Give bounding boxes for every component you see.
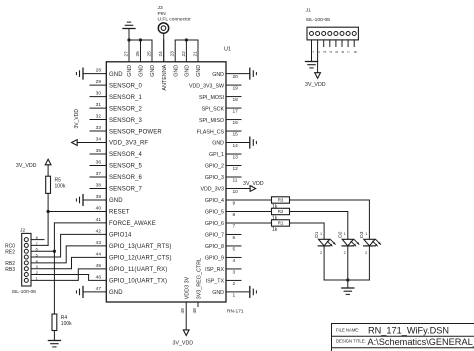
J1 pin 7 stub (347, 40, 349, 47)
wire U1 pin 47 GND to ground (83, 291, 106, 293)
svg-text:SENSOR_4: SENSOR_4 (109, 152, 143, 158)
svg-text:DESIGN TITLE:: DESIGN TITLE: (336, 338, 366, 343)
svg-text:SPI_MISO: SPI_MISO (199, 118, 224, 124)
J1 pin 2 circle (316, 32, 320, 36)
wire junction down to J2 pin 7 (47, 212, 49, 246)
U1 pin 48 stub (bottom) (197, 302, 199, 307)
svg-text:GPIO_4: GPIO_4 (205, 198, 224, 204)
wire 3V_VDD arrow to R5 (47, 165, 49, 176)
svg-text:GPIO_3: GPIO_3 (205, 175, 224, 181)
J2 pin 7 circle (24, 243, 28, 247)
power symbol 3V_VDD (down arrow at J1 pin 2) (315, 73, 321, 79)
U1 pin 35 SENSOR_4 stub (90, 153, 106, 155)
wire U1 to resistor R2 (226, 210, 272, 212)
J1 pin 1 circle (310, 32, 314, 36)
svg-text:1: 1 (365, 232, 367, 236)
connector J1 SIL-100-08 body (307, 27, 358, 40)
wire J2 pin 4 to U1 pin 43 (31, 246, 106, 263)
svg-text:1k: 1k (272, 227, 278, 233)
connector J3 U.FL (outer ring) (158, 23, 168, 33)
svg-text:1: 1 (233, 293, 236, 299)
wire LED common cathode bus (324, 279, 369, 281)
wire R3 to LED D3 (290, 200, 370, 239)
U1 pin 6 GPIO_7 stub (226, 233, 241, 235)
svg-text:44: 44 (96, 251, 102, 257)
wire U1 pin 34 VDD_3V3_RF to power arrow (77, 142, 106, 144)
svg-text:5: 5 (335, 51, 339, 53)
wire U1 pin 28 GND to ground (83, 73, 106, 75)
wire J2 pin 3 to U1 pin 44 (31, 257, 106, 268)
svg-text:7: 7 (347, 51, 351, 53)
J1 pin 3 circle (322, 32, 326, 36)
svg-text:3V_VDD: 3V_VDD (16, 163, 37, 169)
svg-text:SPI_MOSI: SPI_MOSI (199, 95, 224, 101)
wire LED D3 cathode down (368, 246, 370, 280)
ground (top-left, pointing up) (128, 29, 130, 41)
U1 pin 22 GND stub (top) (185, 40, 187, 62)
power symbol 3V_VDD (up arrow above R5) (45, 159, 51, 165)
svg-text:2: 2 (365, 251, 367, 255)
J1 pin 6 stub (341, 40, 343, 47)
resistor R1 (272, 220, 290, 226)
svg-text:30: 30 (96, 91, 102, 97)
U1 pin 26 GND stub (top) (140, 40, 142, 62)
svg-text:6: 6 (233, 235, 236, 241)
U1 pin 3 ISP_RX stub (226, 268, 241, 270)
svg-text:GPIO_5: GPIO_5 (205, 210, 224, 216)
U1 pin 23 GND stub (top) (174, 40, 176, 62)
J1 pin 5 stub (335, 40, 337, 47)
svg-text:RE2: RE2 (5, 250, 15, 256)
LED D1 emission arrow 1 (327, 241, 332, 246)
svg-text:3V_VDD: 3V_VDD (243, 181, 264, 187)
svg-text:49: 49 (180, 308, 186, 314)
svg-text:13: 13 (233, 155, 239, 161)
svg-text:20: 20 (233, 74, 239, 80)
svg-text:36: 36 (96, 160, 102, 166)
junction at pin 26 top (139, 38, 142, 41)
LED D2 cathode bar (342, 245, 354, 247)
svg-text:GND: GND (185, 65, 191, 77)
svg-text:11: 11 (233, 178, 238, 184)
svg-text:27: 27 (123, 51, 129, 57)
svg-text:SENSOR_6: SENSOR_6 (109, 175, 143, 181)
svg-text:3V_VDD: 3V_VDD (173, 341, 194, 347)
svg-text:48: 48 (192, 308, 198, 314)
svg-text:41: 41 (96, 217, 102, 223)
svg-text:GPIO_11(UART_RX): GPIO_11(UART_RX) (109, 267, 167, 273)
wire J2 pin 2 to U1 pin 46 (31, 275, 106, 281)
title block divider 1 (332, 335, 474, 337)
wire top GND bus left (pins 27-25) (129, 39, 152, 41)
svg-text:GND: GND (127, 65, 133, 77)
U1 pin 2 ISP_TX stub (226, 279, 241, 281)
ground (right of pin 14) (249, 137, 251, 148)
svg-text:7: 7 (233, 224, 236, 230)
svg-text:38: 38 (96, 183, 102, 189)
svg-text:GND: GND (212, 290, 224, 296)
U1 pin 32 SENSOR_3 stub (90, 119, 106, 121)
svg-text:VDD_3V3_RF: VDD_3V3_RF (109, 141, 148, 147)
svg-text:100k: 100k (61, 321, 72, 327)
svg-text:GND: GND (212, 141, 224, 147)
U1 pin 17 SPI_SCK stub (226, 107, 241, 109)
svg-text:GPIO_2: GPIO_2 (205, 164, 224, 170)
J1 pin 6 circle (340, 32, 344, 36)
U1 pin 29 SENSOR_0 stub (90, 84, 106, 86)
svg-text:FILE NAME:: FILE NAME: (336, 327, 359, 332)
svg-text:J3: J3 (158, 5, 163, 11)
LED D2 (diode triangle) (342, 239, 353, 246)
ground (right of pin 1) (249, 287, 251, 298)
svg-text:SPI_SCK: SPI_SCK (202, 106, 225, 112)
J1 pin 8 circle (352, 32, 356, 36)
ground (below LEDs) (342, 287, 354, 289)
J2 pin 6 circle (24, 249, 28, 253)
svg-text:R3: R3 (278, 198, 284, 203)
U1 pin 5 GPIO_8 stub (226, 245, 241, 247)
resistor R5 (46, 176, 51, 193)
J1 pin 3 stub (323, 40, 325, 47)
svg-text:23: 23 (170, 51, 176, 57)
svg-text:3: 3 (233, 270, 236, 276)
svg-text:J1: J1 (306, 8, 311, 14)
svg-text:32: 32 (96, 114, 102, 120)
svg-text:PIN: PIN (158, 11, 167, 17)
U1 pin 16 SPI_MISO stub (226, 119, 241, 121)
svg-text:17: 17 (233, 109, 239, 115)
wire LED bus to ground (347, 280, 349, 288)
svg-text:12: 12 (233, 166, 239, 172)
resistor R2 (272, 208, 290, 214)
wire top GND bus right (pins 23-21) (175, 39, 198, 41)
svg-text:VDD_3V3_SW: VDD_3V3_SW (189, 83, 224, 89)
power symbol 3V_VDD (down arrow at pin 49) (183, 330, 189, 336)
svg-text:100k: 100k (55, 183, 66, 189)
power symbol 3V_VDD (right arrow at pin 10) (250, 186, 256, 192)
svg-text:34: 34 (96, 137, 102, 143)
wire J2 pin 1 to U1 pin 45 (31, 269, 106, 280)
wire LED D1 cathode down (323, 246, 325, 280)
svg-text:RN-171: RN-171 (227, 309, 244, 315)
junction LED bus / ground (346, 278, 349, 281)
wire U1 to resistor R3 (226, 199, 272, 201)
wire U1 pin 1 GND to ground (226, 291, 250, 293)
svg-text:43: 43 (96, 240, 102, 246)
svg-text:18: 18 (233, 97, 239, 103)
U1 pin 37 SENSOR_6 stub (90, 176, 106, 178)
wire J2 pin 6 to R4 net junction (31, 250, 54, 252)
wire R1 to LED D1 (290, 223, 325, 239)
svg-text:GND: GND (173, 65, 179, 77)
svg-text:SENSOR_0: SENSOR_0 (109, 83, 143, 89)
svg-text:GND: GND (212, 72, 224, 78)
svg-text:45: 45 (96, 263, 102, 269)
U1 pin 21 GND stub (top) (197, 40, 199, 62)
U1 pin 25 GND stub (top) (151, 40, 153, 62)
svg-text:47: 47 (96, 286, 102, 292)
wire RESET net to U1 pin 40 (48, 211, 106, 213)
LED D2 emission arrow 1 (351, 241, 356, 246)
ground (below R4) (48, 340, 60, 342)
svg-text:1: 1 (320, 232, 322, 236)
svg-text:3V_VDD: 3V_VDD (305, 82, 326, 88)
svg-text:SENSOR_7: SENSOR_7 (109, 187, 143, 193)
svg-text:J2: J2 (20, 228, 25, 234)
svg-text:14: 14 (233, 143, 239, 149)
svg-text:RN_171_WiFy.DSN: RN_171_WiFy.DSN (368, 325, 449, 335)
svg-text:GPIO_6: GPIO_6 (205, 221, 224, 227)
svg-text:15: 15 (233, 132, 239, 138)
svg-text:FLASH_CS: FLASH_CS (197, 129, 225, 135)
wire J2 pin 8 stub (31, 239, 44, 241)
J1 pin 7 circle (346, 32, 350, 36)
wire R4 net vertical (53, 223, 55, 314)
svg-text:SENSOR_2: SENSOR_2 (109, 106, 143, 112)
svg-text:U.FL connector: U.FL connector (158, 17, 192, 23)
svg-text:ANTENNA: ANTENNA (162, 64, 168, 90)
LED D3 emission arrow 2 (376, 240, 381, 245)
svg-text:GPI_1: GPI_1 (209, 152, 224, 158)
J2 pin 4 circle (24, 261, 28, 265)
junction at pin 22 top (185, 38, 188, 41)
J1 pin 4 stub (329, 40, 331, 47)
svg-text:RESET: RESET (109, 210, 130, 216)
LED D2 emission arrow 2 (354, 240, 359, 245)
J2 pin 5 circle (24, 255, 28, 259)
svg-text:A:\Schematics\GENERAL_: A:\Schematics\GENERAL_ (368, 337, 474, 347)
svg-text:R1: R1 (278, 221, 284, 226)
svg-text:SENSOR_1: SENSOR_1 (109, 95, 143, 101)
svg-text:U1: U1 (224, 47, 231, 53)
wire R4 to ground (53, 331, 55, 341)
svg-text:GND: GND (109, 198, 123, 204)
svg-text:GPIO_7: GPIO_7 (205, 233, 224, 239)
wire R2 to LED D2 (290, 211, 348, 239)
resistor R3 (272, 197, 290, 203)
U1 pin 12 GPIO_2 stub (226, 165, 241, 167)
ground (left of pin 47) (82, 287, 84, 298)
wire U1 pin 39 GND to ground (83, 199, 106, 201)
svg-text:4: 4 (233, 258, 236, 264)
svg-text:SENSOR_5: SENSOR_5 (109, 164, 143, 170)
svg-text:3V3_REG_CTRL: 3V3_REG_CTRL (196, 258, 202, 299)
svg-text:GPIO_8: GPIO_8 (205, 244, 224, 250)
LED D3 cathode bar (364, 245, 376, 247)
svg-text:GND: GND (196, 65, 202, 77)
svg-text:42: 42 (96, 228, 102, 234)
svg-text:33: 33 (96, 125, 102, 131)
svg-text:FORCE_AWAKE: FORCE_AWAKE (109, 221, 156, 227)
U1 pin 36 SENSOR_5 stub (90, 165, 106, 167)
wire J1 pin 2 to 3V_VDD (317, 40, 319, 73)
LED D3 (diode triangle) (364, 239, 375, 246)
svg-text:39: 39 (96, 194, 102, 200)
svg-text:37: 37 (96, 171, 102, 177)
U1 pin 15 FLASH_CS stub (226, 130, 241, 132)
svg-text:SIL-100-08: SIL-100-08 (306, 17, 330, 23)
svg-text:R2: R2 (278, 209, 284, 214)
svg-text:22: 22 (181, 51, 187, 57)
ground (right of pin 20) (249, 68, 251, 79)
J2 pin 1 circle (24, 278, 28, 282)
J1 pin 4 circle (328, 32, 332, 36)
svg-text:1: 1 (344, 232, 346, 236)
J2 pin 2 circle (24, 273, 28, 277)
power symbol 3V_VDD (left arrow at pin 34) (72, 140, 78, 146)
svg-text:VDD_3V3: VDD_3V3 (200, 187, 224, 193)
wire J2 pin 7 to RESET junction (31, 244, 48, 246)
wire U1 to resistor R1 (226, 222, 272, 224)
svg-text:GPIO_13(UART_RTS): GPIO_13(UART_RTS) (109, 244, 172, 250)
wire LED D2 cathode down (347, 246, 349, 280)
svg-text:35: 35 (96, 148, 102, 154)
svg-text:29: 29 (96, 79, 102, 85)
svg-text:3: 3 (323, 51, 327, 53)
svg-text:5: 5 (233, 247, 236, 253)
svg-text:GPIO14: GPIO14 (109, 233, 132, 239)
svg-text:46: 46 (96, 274, 102, 280)
wire U1 pin 10 VDD_3V3 to power arrow (226, 188, 250, 190)
svg-text:SENSOR_POWER: SENSOR_POWER (109, 129, 162, 135)
J2 pin 3 circle (24, 267, 28, 271)
svg-text:GPIO_9: GPIO_9 (205, 256, 224, 262)
U1 pin 38 SENSOR_7 stub (90, 188, 106, 190)
U1 pin 11 GPIO_3 stub (226, 176, 241, 178)
U1 pin 18 SPI_MOSI stub (226, 96, 241, 98)
ground (left of pin 28) (82, 68, 84, 79)
svg-text:21: 21 (192, 51, 198, 57)
U1 pin 4 GPIO_9 stub (226, 256, 241, 258)
U1 pin 31 SENSOR_2 stub (90, 107, 106, 109)
svg-text:9: 9 (233, 201, 236, 207)
svg-text:ISP_RX: ISP_RX (205, 267, 224, 273)
U1 pin 33 SENSOR_POWER stub (90, 130, 106, 132)
junction at pin 27 top (127, 38, 130, 41)
svg-text:SIL-100-08: SIL-100-08 (12, 289, 36, 295)
LED D1 cathode bar (318, 245, 330, 247)
wire U1 pin 14 GND to ground (226, 142, 250, 144)
connector J2 SIL-100-08 body (22, 233, 31, 286)
U1 pin 30 SENSOR_1 stub (90, 96, 106, 98)
svg-text:31: 31 (96, 102, 102, 108)
svg-text:19: 19 (233, 86, 239, 92)
svg-text:40: 40 (96, 205, 102, 211)
ground (left of pin 39) (82, 195, 84, 206)
title block border (332, 324, 474, 351)
svg-text:GPIO_12(UART_CTS): GPIO_12(UART_CTS) (109, 256, 172, 262)
U1 pin 13 GPI_1 stub (226, 153, 241, 155)
svg-text:SENSOR_3: SENSOR_3 (109, 118, 143, 124)
wire U1 pin 41 FORCE_AWAKE to R4 net (54, 222, 106, 224)
connector J3 U.FL (inner ring) (161, 26, 166, 31)
svg-text:4: 4 (329, 51, 333, 53)
svg-text:2: 2 (320, 251, 322, 255)
svg-text:GPIO_10(UART_TX): GPIO_10(UART_TX) (109, 279, 167, 285)
svg-text:GND: GND (150, 65, 156, 77)
svg-text:6: 6 (341, 51, 345, 53)
junction R4 net / J2 pin 6 (53, 250, 56, 253)
wire U1 pin 20 GND to ground (226, 73, 250, 75)
svg-text:8: 8 (233, 212, 236, 218)
svg-text:RB3: RB3 (5, 267, 15, 273)
svg-text:2: 2 (233, 281, 236, 287)
resistor R4 (52, 314, 57, 331)
LED D1 (diode triangle) (319, 239, 330, 246)
J2 pin 8 circle (24, 238, 28, 242)
wire J1 pin 1 to ground (311, 40, 313, 62)
svg-text:10: 10 (233, 189, 239, 195)
svg-text:8: 8 (353, 51, 357, 53)
U1 pin 19 VDD_3V3_SW stub (226, 84, 241, 86)
svg-text:VDD3 3V: VDD3 3V (184, 276, 190, 299)
J1 pin 8 stub (353, 40, 355, 47)
wire U1 pin 49 to 3V_VDD (185, 302, 187, 330)
svg-text:26: 26 (135, 51, 141, 57)
svg-text:2: 2 (344, 251, 346, 255)
junction RESET / R5 / J2 pin 7 (47, 210, 50, 213)
LED D3 emission arrow 1 (373, 241, 378, 246)
title block divider 2 (332, 347, 474, 349)
svg-text:GND: GND (109, 290, 123, 296)
U1 pin 24 ANTENNA stub (top) (163, 40, 165, 62)
svg-text:28: 28 (96, 68, 102, 74)
op-amp U1 (RN-171 module body) (106, 62, 226, 302)
svg-text:25: 25 (146, 51, 152, 57)
svg-text:ISP_TX: ISP_TX (206, 279, 225, 285)
svg-text:GND: GND (109, 72, 123, 78)
wire R5 to RESET junction (47, 193, 49, 211)
J1 pin 5 circle (334, 32, 338, 36)
svg-text:3V_VDD: 3V_VDD (74, 109, 80, 129)
svg-text:GND: GND (139, 65, 145, 77)
wire J2 pin 5 to U1 pin 42 GPIO14 (31, 234, 106, 257)
LED D1 emission arrow 2 (331, 240, 336, 245)
ground (below J1 pin 1) (306, 61, 318, 63)
svg-text:16: 16 (233, 120, 239, 126)
U1 pin 27 GND stub (top) (128, 40, 130, 62)
wire J3 to U1 pin 24 ANTENNA (163, 33, 165, 62)
